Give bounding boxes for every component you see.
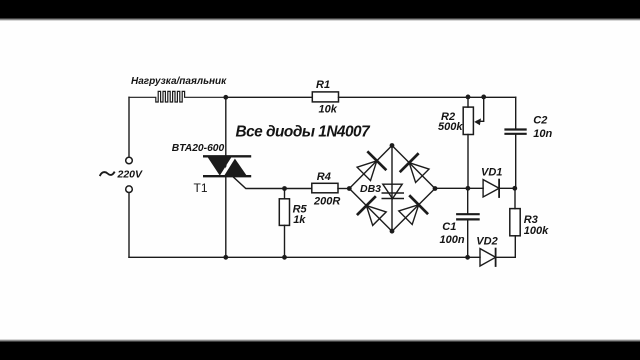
AC source terminal upper bbox=[126, 157, 133, 164]
wire: bridge arm bottom-right bbox=[392, 189, 435, 232]
node: triac bottom bbox=[223, 255, 228, 260]
svg-text:220V: 220V bbox=[117, 169, 144, 181]
resistor R3 bbox=[510, 209, 520, 236]
wire: R4 to bridge left node bbox=[338, 188, 349, 190]
svg-text:T1: T1 bbox=[194, 181, 208, 195]
wire: C2 top stub bbox=[515, 97, 517, 128]
wire: C2 bottom to VD1 node bbox=[515, 135, 517, 189]
node: VD1/R3/C2 bbox=[512, 186, 517, 191]
wire: R2 bottom to mid node bbox=[467, 135, 469, 189]
resistor R5 bbox=[279, 199, 289, 226]
node: bridge bottom bbox=[390, 229, 395, 234]
svg-text:R1: R1 bbox=[316, 79, 330, 91]
wire: R5 bottom stub bbox=[284, 225, 286, 257]
diode VD2 bbox=[480, 249, 496, 266]
svg-text:VD2: VD2 bbox=[476, 235, 497, 247]
wire: triac vertical MT2-MT1 bbox=[225, 97, 227, 257]
capacitor C2 bbox=[506, 130, 526, 134]
wire: bridge arm left-top bbox=[349, 146, 392, 189]
wire: bridge arm top-right bbox=[392, 146, 435, 189]
svg-text:C2: C2 bbox=[533, 115, 547, 127]
wire: left column below lower terminal bbox=[128, 193, 130, 258]
svg-text:R3: R3 bbox=[524, 214, 538, 226]
bridge diode bottom-left bbox=[358, 197, 386, 225]
svg-text:Все диоды 1N4007: Все диоды 1N4007 bbox=[236, 124, 372, 141]
wire: top rail left segment with load meander bbox=[129, 91, 226, 102]
svg-text:500k: 500k bbox=[438, 121, 463, 133]
potentiometer R2 body bbox=[463, 107, 473, 134]
wire: R2 wiper from top rail bbox=[477, 97, 484, 121]
resistor R4 bbox=[312, 183, 338, 193]
bridge diode bottom-right bbox=[399, 196, 427, 224]
svg-text:Нагрузка/паяльник: Нагрузка/паяльник bbox=[131, 76, 227, 87]
node: R2 top bbox=[466, 95, 471, 100]
wire: bottom rail bbox=[129, 256, 468, 258]
wire: bridge center vertical bbox=[391, 146, 393, 232]
node: bridge left bbox=[347, 186, 352, 191]
wire: top rail from R1 to right column bbox=[339, 96, 516, 98]
svg-text:R4: R4 bbox=[317, 171, 331, 183]
node: wiper top bbox=[481, 95, 486, 100]
svg-text:VD1: VD1 bbox=[481, 167, 502, 179]
capacitor C1 bbox=[457, 214, 478, 219]
wire: bottom rail VD2 anode stub bbox=[468, 256, 480, 258]
svg-text:10k: 10k bbox=[319, 104, 338, 116]
diode VD1 bbox=[483, 180, 499, 197]
AC tilde symbol bbox=[100, 172, 114, 175]
svg-text:10n: 10n bbox=[533, 128, 552, 140]
wire: R5 top stub bbox=[284, 189, 286, 199]
svg-text:C1: C1 bbox=[442, 221, 456, 233]
node: bridge right bbox=[433, 186, 438, 191]
svg-text:1k: 1k bbox=[293, 214, 306, 226]
svg-text:100n: 100n bbox=[440, 234, 465, 246]
wire: VD2 cathode to right column riser bbox=[496, 236, 516, 257]
bridge diode top-left bbox=[357, 152, 385, 180]
wire: left column above upper terminal bbox=[128, 97, 130, 157]
node: C1/VD1/R2 bbox=[466, 186, 471, 191]
wire: bridge right node to VD1 anode bbox=[435, 187, 483, 189]
node: bridge top bbox=[390, 143, 395, 148]
wire: C1 bottom stub bbox=[467, 220, 469, 257]
svg-text:100k: 100k bbox=[524, 225, 549, 237]
wire: VD1 cathode to right column bbox=[499, 187, 516, 189]
wire: triac gate to R4 bbox=[234, 177, 312, 188]
svg-text:DB3: DB3 bbox=[360, 183, 381, 195]
svg-text:200R: 200R bbox=[313, 195, 340, 207]
wire: top rail from triac node to R1 bbox=[226, 96, 312, 98]
svg-text:BTA20-600: BTA20-600 bbox=[172, 143, 225, 154]
node: R5 bottom bbox=[282, 255, 287, 260]
wire: R2 top stub bbox=[467, 97, 469, 107]
wire: bridge arm left-bottom bbox=[349, 189, 392, 232]
wire: R3 top stub bbox=[514, 188, 516, 208]
resistor R1 bbox=[312, 92, 338, 102]
node: triac top bbox=[223, 95, 228, 100]
potentiometer R2 wiper arrow bbox=[474, 118, 481, 125]
node: C1/VD2 bottom bbox=[465, 255, 470, 260]
diac DB3 symbol bbox=[382, 184, 403, 198]
wire: C1 top stub bbox=[467, 188, 469, 213]
bridge diode top-right bbox=[401, 154, 429, 182]
AC source terminal lower bbox=[126, 186, 133, 193]
triac T1 bbox=[204, 156, 250, 176]
node: gate/R5/R4 bbox=[282, 186, 287, 191]
